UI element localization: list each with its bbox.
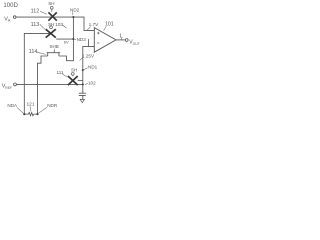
svg-text:VA: VA xyxy=(4,16,11,22)
svg-text:102: 102 xyxy=(88,80,96,85)
wire: V_REF line to feedback vertical xyxy=(16,83,82,85)
wire: vertical from ND2 down with jog joining switch 114 right leg xyxy=(59,17,74,61)
svg-text:SH: SH xyxy=(48,22,54,27)
svg-text:101: 101 xyxy=(105,22,114,28)
leader ND2 xyxy=(72,12,74,15)
junction dot at ND3 xyxy=(72,38,74,40)
control circle of switch 111 xyxy=(71,73,74,76)
leader 113 xyxy=(40,24,45,29)
svg-text:103: 103 xyxy=(55,22,63,28)
svg-text:NDR: NDR xyxy=(47,103,58,108)
switch 111 (X) xyxy=(68,76,78,85)
resistor 121 between NDA and NDR xyxy=(24,112,37,115)
leader ND1 xyxy=(84,68,88,70)
leader L xyxy=(120,38,122,40)
leader 102 xyxy=(85,83,88,85)
leader NDR xyxy=(39,107,47,113)
control circle of switch 113 xyxy=(50,26,53,29)
op-amp - sign xyxy=(97,42,100,44)
svg-text:SHB: SHB xyxy=(50,44,59,49)
leader ND3 xyxy=(75,38,76,40)
svg-text:6V: 6V xyxy=(64,39,69,44)
wire: switch 113 output to junction ND3 xyxy=(56,38,73,40)
junction dot NDA xyxy=(23,113,25,115)
wire: inverting input step xyxy=(88,39,94,46)
leader 111 xyxy=(63,74,68,77)
leader 1.25V xyxy=(80,58,83,61)
svg-text:1.25V: 1.25V xyxy=(82,54,95,59)
stub: switch 111 right to feedback vertical xyxy=(78,80,83,82)
output terminal V_OUT xyxy=(125,39,128,42)
svg-text:ND3: ND3 xyxy=(77,37,87,42)
svg-text:1.7V: 1.7V xyxy=(89,22,100,27)
leader 114 xyxy=(36,52,46,55)
control stub switch 112 xyxy=(51,9,53,12)
switch 112 (X) xyxy=(48,12,56,20)
junction dot ND2 xyxy=(72,16,74,18)
svg-text:SH: SH xyxy=(48,1,54,6)
wire: from NDA node up to second row into switch 113 xyxy=(24,33,50,114)
leader 112 xyxy=(40,11,47,14)
leader 101 xyxy=(104,26,107,31)
ground xyxy=(80,99,84,102)
op-amp 101 triangle xyxy=(94,28,116,53)
svg-text:ND2: ND2 xyxy=(70,7,80,12)
svg-text:112: 112 xyxy=(31,9,40,15)
op-amp + sign xyxy=(97,32,100,35)
switch 114 (SHB bridge) xyxy=(47,53,61,56)
svg-text:L: L xyxy=(120,33,124,39)
svg-text:SH: SH xyxy=(71,68,77,73)
capacitor 102 xyxy=(79,93,86,95)
svg-text:100D: 100D xyxy=(3,2,18,9)
junction dot NDR xyxy=(36,113,38,115)
wire: switch 114 left leg jog down to NDR branch xyxy=(38,56,48,114)
wire: feedback node down to ND1 and capacitor 102 xyxy=(83,46,89,93)
junction dot ND1 xyxy=(82,69,84,71)
wire: V_A through switch 112 to node ND2, bend down to op-amp + input xyxy=(16,17,94,30)
control stub switch 111 xyxy=(72,75,74,76)
svg-text:VOUT: VOUT xyxy=(129,40,139,46)
control arrow SHB xyxy=(53,49,55,51)
leader 103 xyxy=(62,25,66,28)
svg-text:NDA: NDA xyxy=(7,103,18,108)
svg-text:113: 113 xyxy=(31,22,40,28)
leader 1.7V xyxy=(87,26,91,30)
svg-text:ND1: ND1 xyxy=(88,64,98,69)
svg-text:121: 121 xyxy=(27,102,35,108)
svg-text:VREF: VREF xyxy=(2,84,12,90)
switch 113 (X) xyxy=(46,29,56,37)
output wire xyxy=(116,39,125,41)
junction dot on V_REF line xyxy=(82,83,84,85)
leader 121 xyxy=(29,106,32,111)
control circle of switch 112 xyxy=(50,6,53,9)
leader NDA xyxy=(17,107,23,113)
